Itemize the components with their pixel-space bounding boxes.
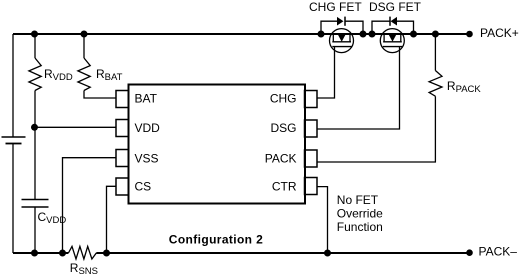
svg-text:PACK+: PACK+ [480, 26, 519, 40]
svg-text:DSG FET: DSG FET [369, 0, 422, 14]
svg-text:VSS: VSS [135, 151, 159, 165]
svg-text:Configuration 2: Configuration 2 [169, 233, 263, 247]
svg-text:CTR: CTR [272, 180, 297, 194]
svg-text:BAT: BAT [135, 91, 158, 105]
svg-text:DSG: DSG [270, 121, 296, 135]
svg-text:No FET: No FET [337, 193, 379, 207]
svg-text:PACK: PACK [265, 152, 297, 166]
svg-text:PACK–: PACK– [479, 245, 518, 259]
svg-text:CS: CS [135, 180, 152, 194]
svg-text:CHG FET: CHG FET [309, 0, 362, 14]
svg-text:Override: Override [337, 207, 383, 221]
svg-text:Function: Function [337, 220, 383, 234]
svg-text:VDD: VDD [135, 121, 161, 135]
svg-text:CHG: CHG [270, 91, 297, 105]
